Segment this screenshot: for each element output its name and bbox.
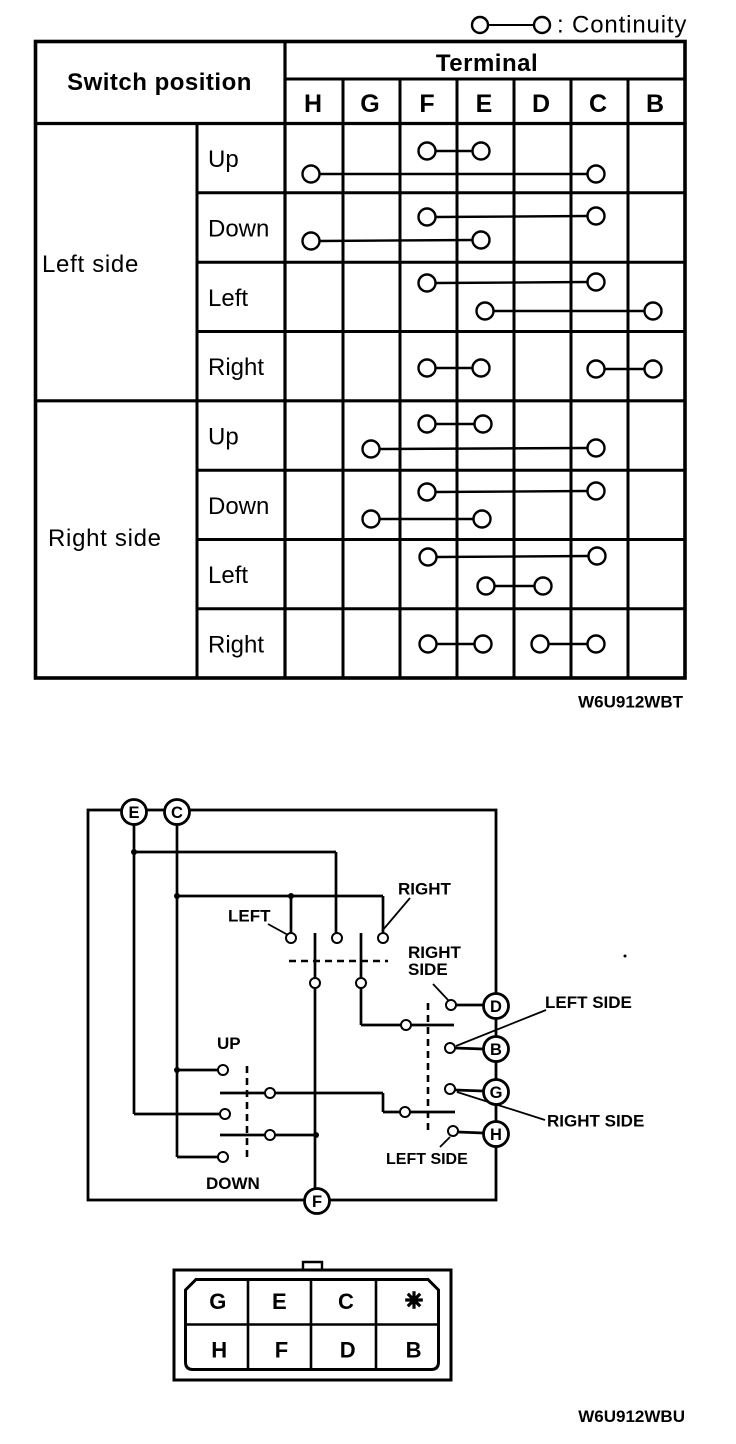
svg-text:B: B <box>406 1338 422 1363</box>
svg-text:H: H <box>211 1338 227 1363</box>
svg-text:: Continuity: : Continuity <box>557 12 687 39</box>
svg-text:LEFT SIDE: LEFT SIDE <box>545 993 632 1012</box>
svg-text:B: B <box>490 1041 502 1059</box>
svg-text:Up: Up <box>208 146 239 173</box>
svg-text:UP: UP <box>217 1034 241 1053</box>
svg-text:E: E <box>476 90 493 118</box>
svg-text:Switch position: Switch position <box>67 69 252 96</box>
svg-text:G: G <box>360 90 379 118</box>
svg-text:Right: Right <box>208 354 264 381</box>
svg-text:F: F <box>419 90 434 118</box>
svg-text:F: F <box>312 1193 322 1211</box>
svg-text:RIGHT SIDE: RIGHT SIDE <box>547 1112 644 1131</box>
svg-text:RIGHT: RIGHT <box>398 880 452 899</box>
svg-text:C: C <box>338 1289 354 1314</box>
svg-text:H: H <box>304 90 322 118</box>
svg-text:Left side: Left side <box>42 251 139 278</box>
svg-text:D: D <box>532 90 550 118</box>
svg-text:D: D <box>340 1338 356 1363</box>
svg-text:LEFT SIDE: LEFT SIDE <box>386 1151 468 1168</box>
svg-text:Left: Left <box>208 562 248 589</box>
svg-text:SIDE: SIDE <box>408 960 448 979</box>
svg-text:W6U912WBU: W6U912WBU <box>578 1407 685 1426</box>
svg-text:C: C <box>171 804 183 822</box>
svg-text:E: E <box>128 804 139 822</box>
svg-text:Up: Up <box>208 424 239 451</box>
svg-text:Down: Down <box>208 216 269 243</box>
svg-text:C: C <box>589 90 607 118</box>
svg-text:G: G <box>209 1289 226 1314</box>
svg-text:D: D <box>490 998 502 1016</box>
svg-text:H: H <box>490 1126 502 1144</box>
svg-text:LEFT: LEFT <box>228 907 271 926</box>
svg-text:Right: Right <box>208 632 264 659</box>
svg-text:DOWN: DOWN <box>206 1174 260 1193</box>
svg-text:F: F <box>275 1338 288 1363</box>
svg-text:Right side: Right side <box>48 525 162 552</box>
svg-text:G: G <box>490 1084 503 1102</box>
svg-text:E: E <box>272 1289 287 1314</box>
svg-text:W6U912WBT: W6U912WBT <box>578 693 683 712</box>
svg-text:Left: Left <box>208 285 248 312</box>
svg-text:Down: Down <box>208 493 269 520</box>
svg-text:Terminal: Terminal <box>436 50 538 77</box>
svg-text:B: B <box>646 90 664 118</box>
